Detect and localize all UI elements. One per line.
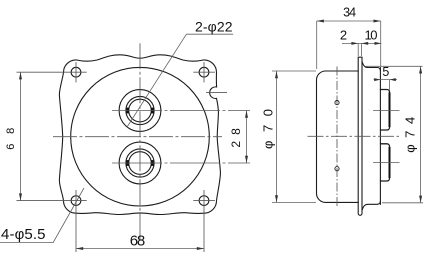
horizontal centerline (53, 136, 222, 138)
notch centerline (206, 92, 227, 94)
upper hole slot ticks (128, 108, 152, 166)
upper hole middle circle (126, 96, 154, 124)
34 dimension line (317, 20, 381, 22)
svg-text:5: 5 (382, 65, 389, 79)
boss faces thick (389, 93, 391, 179)
flange plate (358, 57, 362, 215)
left 68 dimension line (20, 72, 22, 200)
34 extension lines (317, 21, 381, 69)
arrowheads bottom 68 (76, 247, 83, 250)
corner hole BR cross (193, 190, 215, 252)
lower hole centerline (112, 162, 250, 164)
lower boss centerline (373, 162, 400, 164)
phi70 extension lines (272, 71, 316, 202)
arrowheads 34 (317, 20, 324, 23)
body cup outline (317, 71, 359, 202)
svg-text:2: 2 (340, 27, 347, 42)
arrowheads 2 (351, 42, 358, 45)
5 dimension line (374, 79, 398, 81)
2 10 extension stubs (358, 43, 361, 56)
corner hole BL (71, 196, 81, 206)
lower hole inner circle (129, 152, 152, 175)
upper hole inner circle (129, 99, 152, 122)
small circle upper on centerline (335, 101, 339, 171)
lower hole middle circle (126, 149, 154, 177)
arrowheads left 68 (19, 72, 22, 79)
side horizontal centerline (308, 135, 400, 137)
lower hole outer circle (119, 142, 161, 184)
svg-text:34: 34 (343, 6, 356, 20)
upper boss centerline (373, 110, 400, 112)
upper boss (380, 90, 389, 131)
lower boss (380, 144, 389, 181)
corner hole BR (199, 196, 209, 206)
corner hole TL (71, 67, 81, 77)
cover plate wavy outline (59, 55, 220, 215)
2-phi22 leader (127, 34, 233, 127)
side vertical centerline (336, 67, 338, 207)
right 28 dimension line (246, 111, 248, 164)
arrowhead 10 (375, 42, 382, 45)
upper hole outer circle (119, 90, 161, 132)
arrowheads phi74 (419, 66, 422, 73)
dimension lines side view (272, 21, 423, 203)
arrowheads 5 (374, 78, 380, 81)
centerlines side view (308, 67, 400, 207)
phi70 dimension line (276, 71, 278, 202)
rim phi74 bottom edge (362, 201, 380, 210)
phi74 extension lines (366, 66, 423, 203)
5 extension line (389, 80, 391, 90)
arrowheads right 28 (245, 111, 248, 118)
svg-text:φ70: φ70 (260, 109, 275, 149)
corner hole BL cross (17, 190, 87, 252)
big circle phi74 body (71, 67, 210, 206)
corner hole TR cross (193, 62, 215, 83)
upper hole centerline (112, 110, 250, 112)
rim phi74 top edge (362, 62, 380, 71)
svg-text:4-φ5.5: 4-φ5.5 (1, 226, 46, 243)
corner hole TL cross (17, 62, 87, 83)
arrowheads phi70 (275, 71, 278, 78)
centerlines front view (17, 43, 251, 252)
dimension lines front view (0, 34, 247, 248)
2 and 10 dimension line (342, 42, 381, 44)
small circle lower on centerline (335, 167, 339, 171)
svg-text:68: 68 (130, 233, 146, 250)
svg-text:2-φ22: 2-φ22 (195, 18, 233, 34)
4-phi5.5 leader (0, 188, 84, 243)
lower hole slot ticks (126, 160, 129, 166)
bottom 68 dimension line (76, 248, 204, 250)
vertical centerline (139, 43, 141, 240)
svg-text:10: 10 (365, 27, 378, 42)
corner hole TR (199, 67, 209, 77)
svg-text:φ74: φ74 (403, 117, 418, 153)
phi74 dimension line (420, 66, 422, 203)
rim right face (379, 68, 381, 205)
